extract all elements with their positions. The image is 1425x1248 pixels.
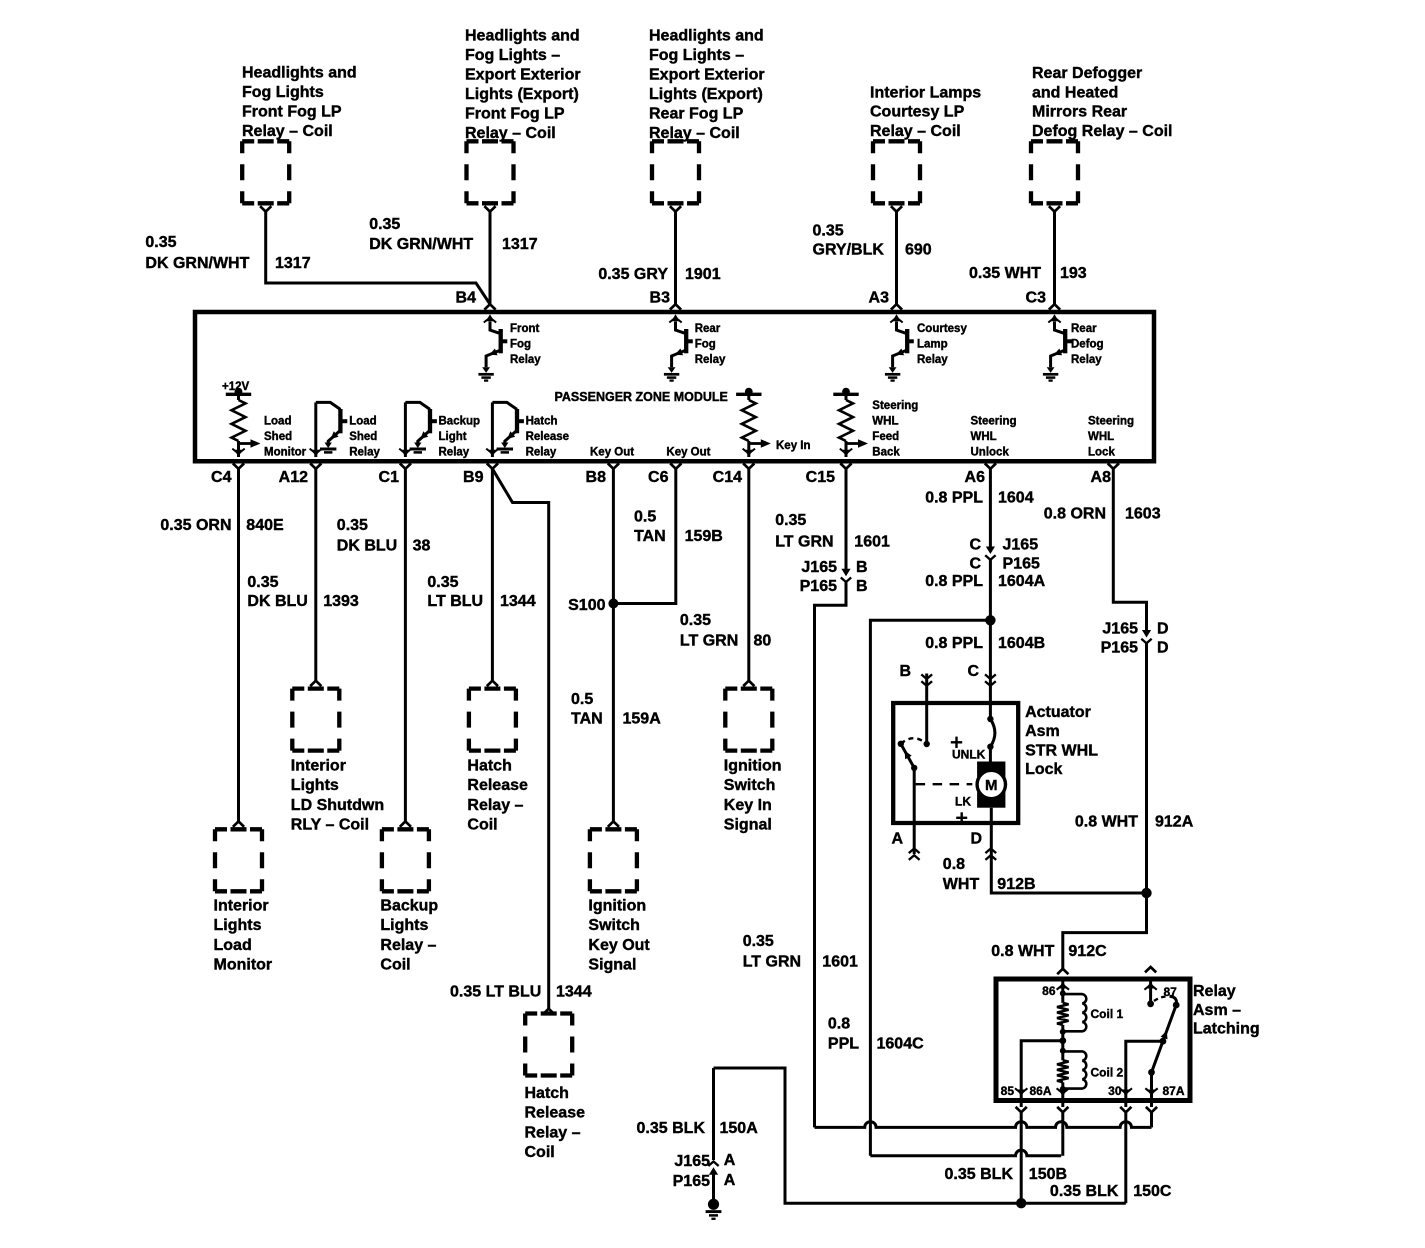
label C J165 / C P165	[969, 537, 1040, 573]
svg-text:0.35 BLK: 0.35 BLK	[945, 1166, 1014, 1183]
svg-text:A12: A12	[279, 469, 308, 486]
svg-text:Export Exterior: Export Exterior	[649, 66, 765, 83]
label actuator pin D	[970, 831, 982, 848]
pin label C4	[211, 469, 232, 486]
svg-text:0.35: 0.35	[427, 574, 458, 591]
svg-text:Relay – Coil: Relay – Coil	[242, 123, 333, 140]
svg-text:LK: LK	[955, 794, 971, 808]
svg-text:Key In: Key In	[724, 797, 772, 814]
switch blade A inside actuator	[901, 744, 918, 771]
svg-text:Hatch: Hatch	[526, 415, 558, 427]
svg-text:0.8 PPL: 0.8 PPL	[925, 490, 983, 507]
svg-text:193: 193	[1060, 265, 1087, 282]
wire 159A pin B8 to Ignition Switch Key Out Signal	[612, 469, 615, 822]
wire 193 from K5 to pin C3	[1053, 212, 1056, 305]
svg-text:D: D	[1157, 640, 1169, 657]
connector fork at Backup Lights Relay	[400, 821, 411, 826]
connector fork at relay pin 30	[1120, 1107, 1131, 1112]
svg-text:Headlights and: Headlights and	[465, 27, 580, 44]
svg-text:Signal: Signal	[588, 957, 636, 974]
svg-text:TAN: TAN	[634, 528, 666, 545]
svg-text:Interior Lamps: Interior Lamps	[870, 84, 981, 101]
wire 1604 pin A6 to J165 connector	[989, 469, 992, 547]
svg-text:B3: B3	[650, 290, 671, 307]
svg-text:DK GRN/WHT: DK GRN/WHT	[145, 255, 249, 272]
svg-text:1604B: 1604B	[998, 635, 1045, 652]
label Export Rear Fog LP Relay Coil header	[649, 27, 765, 142]
wire 1601 from J165-B to relay 87A	[815, 582, 847, 1128]
svg-text:PASSENGER ZONE MODULE: PASSENGER ZONE MODULE	[555, 390, 728, 404]
svg-text:1601: 1601	[854, 534, 890, 551]
svg-text:Lights (Export): Lights (Export)	[465, 86, 579, 103]
inline connector J165/P165 pin B	[841, 569, 851, 582]
splice junction 1604A/1604B/1604C	[985, 615, 995, 625]
svg-text:LT GRN: LT GRN	[775, 534, 833, 551]
svg-text:J165: J165	[674, 1153, 710, 1170]
wire below connector A to ground	[712, 1173, 715, 1199]
actuator box Actuator Asm STR WHL Lock	[893, 703, 1018, 823]
wire relay pin 30 to 150C	[1124, 1112, 1127, 1203]
svg-text:1317: 1317	[275, 255, 311, 272]
svg-text:WHL: WHL	[971, 431, 997, 443]
svg-text:C4: C4	[211, 469, 232, 486]
pin label C3	[1026, 290, 1047, 307]
svg-text:A8: A8	[1091, 469, 1112, 486]
svg-text:Lock: Lock	[1025, 761, 1062, 778]
label LK	[955, 794, 971, 808]
connector fork at Ignition Switch Key Out Signal	[608, 821, 619, 826]
svg-text:0.5: 0.5	[571, 691, 593, 708]
svg-text:Lamp: Lamp	[917, 339, 948, 351]
wire 690 from K4 to pin A3	[895, 212, 898, 305]
transistor Hatch Release Relay	[486, 402, 524, 457]
svg-text:Fog: Fog	[510, 339, 531, 351]
label Courtesy Lamp Relay	[917, 323, 967, 366]
component box Hatch Release Relay - Coil (upper)	[469, 689, 516, 751]
component box Interior Lights LD Shutdwn RLY - Coil	[292, 689, 339, 751]
label relay pin 87	[1164, 985, 1178, 999]
label Coil 2	[1091, 1066, 1124, 1080]
svg-text:Lights: Lights	[291, 777, 339, 794]
relay Coil 2	[1057, 1048, 1086, 1092]
svg-text:Hatch: Hatch	[467, 758, 511, 775]
splice junction 912A/912B	[1141, 888, 1151, 898]
svg-text:30: 30	[1108, 1084, 1122, 1098]
connector chevrons actuator pin B	[921, 674, 932, 685]
svg-text:B: B	[856, 578, 868, 595]
svg-text:0.8 WHT: 0.8 WHT	[991, 943, 1054, 960]
svg-text:Release: Release	[467, 777, 528, 794]
resistor +12V load shed monitor sense (pin C4)	[226, 388, 261, 457]
svg-text:WHL: WHL	[1088, 431, 1114, 443]
svg-text:Defog: Defog	[1071, 339, 1104, 351]
svg-text:Relay – Coil: Relay – Coil	[870, 123, 961, 140]
wire relay pin 87A to 1601 run	[1150, 1112, 1153, 1127]
label PASSENGER ZONE MODULE	[555, 390, 728, 404]
label 0.35 GRY/BLK 690	[813, 223, 932, 259]
connector fork at relay pin 85	[1016, 1107, 1027, 1112]
label 0.35 DK BLU 1393	[247, 574, 358, 610]
pin label A12	[279, 469, 308, 486]
switch contact pin B inside actuator	[924, 741, 930, 747]
svg-text:C6: C6	[648, 469, 669, 486]
label Relay Asm - Latching	[1193, 983, 1260, 1038]
svg-text:Front: Front	[510, 323, 540, 335]
svg-text:WHL: WHL	[872, 415, 898, 427]
connector fork at pin A8	[1108, 463, 1119, 468]
svg-text:Hatch: Hatch	[525, 1085, 569, 1102]
svg-text:Relay: Relay	[439, 446, 470, 458]
svg-text:Lights: Lights	[380, 917, 428, 934]
svg-text:86A: 86A	[1029, 1084, 1051, 1098]
label Ignition Switch Key Out Signal	[588, 898, 650, 974]
svg-text:Lock: Lock	[1088, 446, 1115, 458]
relay coil K1 Front Fog LP Relay - Coil	[242, 141, 289, 211]
svg-text:Steering: Steering	[872, 400, 918, 412]
svg-text:0.35: 0.35	[337, 517, 368, 534]
svg-text:0.8 PPL: 0.8 PPL	[925, 573, 983, 590]
wire 1344 pin B9 to Hatch Release Relay coil	[491, 469, 494, 681]
label Load Shed Monitor	[264, 415, 307, 458]
svg-text:Load: Load	[214, 937, 252, 954]
wire 1601 horizontal run to relay pin 87A with hops	[815, 1122, 1152, 1128]
svg-text:0.35: 0.35	[813, 223, 844, 240]
inline connector J165/P165 pin A	[708, 1162, 718, 1175]
label Export Front Fog LP Relay Coil header	[465, 27, 581, 142]
svg-text:C14: C14	[713, 469, 742, 486]
connector fork at Hatch Release Relay (lower)	[543, 1009, 554, 1014]
svg-text:Backup: Backup	[439, 415, 481, 427]
connector fork at Hatch Release Relay (upper)	[487, 681, 498, 686]
svg-text:0.35: 0.35	[145, 234, 176, 251]
component box Hatch Release Relay - Coil (lower)	[525, 1014, 572, 1076]
label Key In	[776, 440, 811, 452]
label relay pin 86	[1042, 984, 1056, 998]
relay coil K3 Export Rear Fog LP Relay - Coil	[652, 141, 699, 211]
wire 1344 branch pin B9 to lower Hatch Release Relay coil	[492, 469, 548, 1009]
connector fork at relay pin 87A	[1146, 1107, 1157, 1112]
svg-text:Relay: Relay	[526, 446, 557, 458]
label Steering WHL Feed Back	[872, 400, 918, 459]
svg-text:0.35 GRY: 0.35 GRY	[598, 266, 668, 283]
svg-text:WHT: WHT	[943, 876, 980, 893]
label 0.8 WHT 912C	[991, 943, 1107, 960]
svg-text:Relay: Relay	[1193, 983, 1236, 1000]
svg-text:0.8 WHT: 0.8 WHT	[1075, 814, 1138, 831]
pin label A6	[965, 469, 986, 486]
connector fork at pin C6	[670, 463, 681, 468]
label Front Fog LP Relay Coil header	[242, 65, 357, 140]
svg-text:Front Fog LP: Front Fog LP	[465, 105, 565, 122]
connector fork at pin A3	[891, 304, 902, 309]
label 0.35 WHT 193	[969, 265, 1087, 282]
label Rear Defogger Defog Relay Coil header	[1032, 65, 1172, 140]
label 0.35 BLK 150A	[637, 1120, 759, 1137]
svg-text:1601: 1601	[822, 954, 858, 971]
svg-text:Steering: Steering	[971, 415, 1017, 427]
wire 150A ground riser	[712, 1068, 715, 1160]
label 0.35 LT BLU 1344 (lower)	[450, 983, 592, 1000]
motor M steering wheel lock actuator	[977, 762, 1005, 808]
wire relay pin 87A inside box	[1150, 1072, 1153, 1093]
label 0.35 DK BLU 38	[337, 517, 431, 554]
svg-text:80: 80	[754, 633, 772, 650]
transistor Rear Fog Relay	[664, 314, 693, 380]
relay box Relay Asm - Latching	[996, 979, 1190, 1101]
pin label A3	[869, 290, 890, 307]
svg-text:Relay: Relay	[917, 354, 948, 366]
transistor Load Shed Relay	[310, 402, 348, 457]
pin label B9	[463, 469, 484, 486]
wire relay pin 87 stub into box	[1144, 982, 1156, 1004]
label Ignition Switch Key In Signal	[724, 758, 782, 834]
wire between Coil 1 and Coil 2	[1061, 1032, 1064, 1051]
svg-text:J165: J165	[1102, 621, 1138, 638]
svg-text:Relay: Relay	[510, 354, 541, 366]
splice S100	[608, 599, 618, 609]
splice junction coils to pin 85 branch	[1059, 1037, 1066, 1044]
label 0.5 TAN 159B	[634, 509, 723, 546]
svg-text:150A: 150A	[720, 1120, 759, 1137]
svg-text:M: M	[985, 777, 998, 794]
label Actuator Asm STR WHL Lock	[1025, 704, 1098, 778]
wire 159B pin C6 to splice S100	[613, 469, 675, 604]
svg-text:A: A	[724, 1152, 736, 1169]
svg-text:DK BLU: DK BLU	[337, 537, 397, 554]
svg-text:J165: J165	[801, 559, 837, 576]
svg-text:UNLK: UNLK	[952, 747, 986, 761]
wire 80 pin C14 to Ignition Switch Key In Signal	[747, 469, 750, 681]
wire relay pin 86A to 150B	[1061, 1112, 1064, 1156]
transistor Rear Defog Relay	[1043, 314, 1072, 380]
connector fork at pin B4	[484, 304, 495, 309]
wire 1604C from splice to 150B corner	[870, 620, 990, 1156]
label J165 P165 B	[800, 559, 868, 595]
switch curved blade UNLK contact	[987, 716, 995, 750]
svg-text:38: 38	[413, 537, 431, 554]
relay switch blade 87A-87	[1147, 996, 1179, 1075]
svg-text:D: D	[1157, 621, 1169, 638]
svg-text:RLY – Coil: RLY – Coil	[291, 817, 369, 834]
svg-text:0.8 PPL: 0.8 PPL	[925, 635, 983, 652]
svg-text:1344: 1344	[500, 593, 536, 610]
wire 1604A from J165-C to splice	[989, 560, 992, 621]
label J165 P165 A	[673, 1152, 736, 1190]
svg-text:STR WHL: STR WHL	[1025, 743, 1098, 760]
wire branch to relay pin 85	[1021, 1041, 1063, 1093]
pin label C6	[648, 469, 669, 486]
svg-text:Back: Back	[872, 446, 900, 458]
svg-text:A3: A3	[869, 290, 890, 307]
ground G at 150A	[706, 1199, 722, 1219]
component box Interior Lights Load Monitor	[215, 829, 262, 891]
svg-text:A6: A6	[965, 469, 986, 486]
svg-text:LT GRN: LT GRN	[743, 954, 801, 971]
connector fork at pin A6	[985, 463, 996, 468]
wire actuator pin D to 912B junction	[991, 808, 1146, 893]
connector fork at relay pin 87 stub	[1145, 967, 1156, 972]
svg-text:Key In: Key In	[776, 440, 811, 452]
label + (LK)	[956, 812, 967, 823]
label Key Out (B8)	[590, 446, 634, 458]
label Hatch Release Relay - Coil (upper)	[467, 758, 528, 834]
svg-text:0.35: 0.35	[775, 512, 806, 529]
label Key Out (C6)	[666, 446, 710, 458]
connector fork at pin C14	[743, 463, 754, 468]
label 0.5 TAN 159A	[571, 691, 661, 728]
svg-text:Coil 1: Coil 1	[1091, 1007, 1124, 1021]
svg-text:LT GRN: LT GRN	[680, 633, 738, 650]
wire Coil 2 to relay pin 86A	[1061, 1089, 1064, 1093]
svg-text:690: 690	[905, 242, 932, 259]
svg-text:Load: Load	[264, 415, 291, 427]
svg-text:Shed: Shed	[264, 431, 292, 443]
svg-text:Monitor: Monitor	[214, 957, 273, 974]
connector fork at pin C3	[1049, 304, 1060, 309]
label relay pin 87A	[1163, 1084, 1185, 1098]
svg-text:87A: 87A	[1163, 1084, 1185, 1098]
svg-text:Monitor: Monitor	[264, 446, 307, 458]
label Rear Defog Relay	[1071, 323, 1104, 366]
svg-text:Rear Fog LP: Rear Fog LP	[649, 105, 744, 122]
svg-text:Lights: Lights	[214, 917, 262, 934]
component box Backup Lights Relay - Coil	[382, 829, 429, 891]
svg-text:0.8 ORN: 0.8 ORN	[1044, 506, 1106, 523]
svg-text:159A: 159A	[623, 711, 662, 728]
wire relay pin 86A through box edge	[1057, 1088, 1069, 1107]
svg-text:Signal: Signal	[724, 817, 772, 834]
relay coil K2 Export Front Fog LP Relay - Coil	[467, 141, 514, 211]
relay coil K5 Rear Defog Relay - Coil	[1031, 141, 1078, 211]
svg-text:0.35: 0.35	[680, 612, 711, 629]
svg-text:150C: 150C	[1133, 1183, 1172, 1200]
svg-text:C3: C3	[1026, 290, 1047, 307]
wire relay pin 30 through box edge	[1120, 1088, 1132, 1107]
svg-text:85: 85	[1001, 1084, 1015, 1098]
label Coil 1	[1091, 1007, 1124, 1021]
connector fork at pin B9	[487, 463, 498, 468]
module box PASSENGER ZONE MODULE	[195, 312, 1154, 461]
resistor Steering WHL Feed Back (pin C15)	[833, 388, 868, 457]
svg-text:0.35 BLK: 0.35 BLK	[637, 1120, 706, 1137]
svg-text:Coil 2: Coil 2	[1091, 1066, 1124, 1080]
pin label B4	[456, 290, 477, 307]
svg-text:Rear: Rear	[1071, 323, 1097, 335]
svg-text:Lights (Export): Lights (Export)	[649, 86, 763, 103]
label Steering WHL Lock	[1088, 415, 1134, 458]
svg-text:1604C: 1604C	[877, 1036, 925, 1053]
svg-text:Key Out: Key Out	[590, 446, 634, 458]
label Backup Light Relay	[439, 415, 481, 458]
label 0.35 GRY 1901	[598, 266, 720, 283]
component box Ignition Switch Key Out Signal	[590, 829, 637, 891]
svg-text:86: 86	[1042, 984, 1056, 998]
svg-text:Fog Lights –: Fog Lights –	[465, 47, 560, 64]
svg-text:Key Out: Key Out	[666, 446, 710, 458]
label +12V	[222, 381, 250, 393]
label 0.8 PPL 1604B	[925, 635, 1045, 652]
svg-text:Export Exterior: Export Exterior	[465, 66, 581, 83]
svg-text:and Heated: and Heated	[1032, 84, 1118, 101]
svg-text:1604A: 1604A	[998, 573, 1046, 590]
svg-text:Defog Relay – Coil: Defog Relay – Coil	[1032, 123, 1172, 140]
connector chevrons actuator pin A	[909, 849, 920, 860]
svg-text:PPL: PPL	[828, 1036, 859, 1053]
label 0.8 PPL 1604	[925, 490, 1034, 507]
label J165 P165 D	[1101, 621, 1169, 657]
splice junction 30-branch to blade	[1160, 1038, 1167, 1045]
wire 1901 from K3 to pin B3	[674, 212, 677, 305]
svg-text:C1: C1	[379, 469, 400, 486]
svg-text:C: C	[967, 663, 979, 680]
svg-text:0.35: 0.35	[247, 574, 278, 591]
svg-text:C: C	[969, 537, 981, 554]
label Load Shed Relay	[349, 415, 380, 458]
wire 840E pin C4 to Interior Lights Load Monitor	[237, 469, 240, 822]
pin label C1	[379, 469, 400, 486]
svg-text:DK BLU: DK BLU	[247, 593, 307, 610]
dashed alternate position arc B	[901, 738, 927, 744]
svg-text:0.35 LT BLU: 0.35 LT BLU	[450, 983, 541, 1000]
connector fork at pin C15	[840, 463, 851, 468]
wire relay pin 87A through box edge	[1145, 1088, 1157, 1107]
svg-text:Asm: Asm	[1025, 723, 1060, 740]
svg-text:A: A	[891, 831, 903, 848]
label + (UNLK)	[951, 737, 962, 748]
svg-text:GRY/BLK: GRY/BLK	[813, 242, 885, 259]
svg-text:Rear: Rear	[695, 323, 721, 335]
wire 1604B from splice to actuator pin C	[989, 620, 992, 719]
svg-text:Interior: Interior	[214, 898, 269, 915]
svg-text:P165: P165	[673, 1173, 710, 1190]
wire actuator pin B stub	[925, 674, 928, 745]
label 0.8 PPL 1604A	[925, 573, 1045, 590]
svg-text:B4: B4	[456, 290, 477, 307]
svg-text:DK GRN/WHT: DK GRN/WHT	[369, 236, 473, 253]
wire 912A from J165-D to relay	[1063, 643, 1147, 969]
label relay pin 30	[1108, 1084, 1122, 1098]
label Backup Lights Relay - Coil	[380, 898, 438, 974]
wire relay pin 85 to 150C	[1020, 1112, 1023, 1203]
transistor Front Fog Relay	[478, 314, 507, 380]
svg-text:Front Fog LP: Front Fog LP	[242, 104, 342, 121]
svg-text:TAN: TAN	[571, 711, 603, 728]
label 0.8 ORN 1603	[1044, 506, 1161, 523]
svg-text:C: C	[969, 556, 981, 573]
svg-text:Feed: Feed	[872, 431, 899, 443]
svg-text:Relay –: Relay –	[380, 937, 436, 954]
connector fork at pin B3	[670, 304, 681, 309]
svg-text:0.8: 0.8	[943, 856, 965, 873]
label 0.35 BLK 150C	[1050, 1183, 1172, 1200]
svg-text:Light: Light	[439, 431, 467, 443]
label actuator pin A	[891, 831, 903, 848]
pin label B3	[650, 290, 671, 307]
svg-text:P165: P165	[1003, 556, 1040, 573]
svg-text:1393: 1393	[323, 593, 359, 610]
relay coil K4 Courtesy LP Relay - Coil	[873, 141, 920, 211]
svg-text:0.35 ORN: 0.35 ORN	[160, 517, 231, 534]
svg-text:Unlock: Unlock	[971, 446, 1010, 458]
wire relay pin 30 branch	[1126, 1041, 1163, 1093]
connector fork at pin A12	[310, 463, 321, 468]
label UNLK	[952, 747, 986, 761]
label 0.8 PPL 1604C	[828, 1016, 924, 1053]
svg-text:J165: J165	[1003, 537, 1039, 554]
svg-text:840E: 840E	[246, 517, 284, 534]
svg-text:Switch: Switch	[588, 917, 640, 934]
svg-text:1603: 1603	[1125, 506, 1161, 523]
